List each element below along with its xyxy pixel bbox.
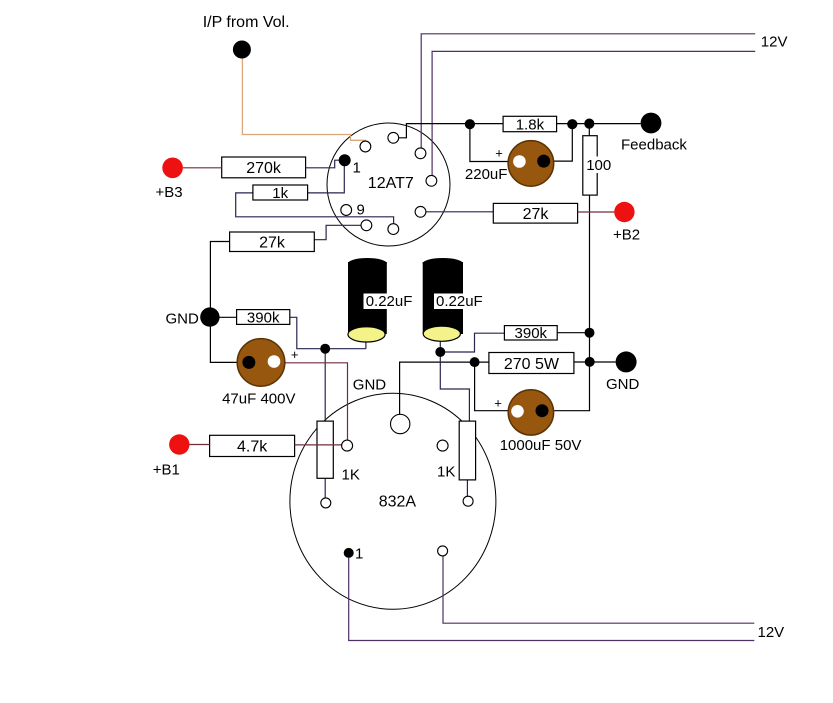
svg-text:+: + xyxy=(291,347,299,362)
svg-text:I/P from Vol.: I/P from Vol. xyxy=(203,14,290,31)
wire: red 4.7k to 832A grid pin xyxy=(295,444,342,446)
svg-text:27k: 27k xyxy=(259,235,286,252)
wire: navy junction down to left 1K grid resistor xyxy=(324,353,326,421)
terminal GND left xyxy=(166,307,220,327)
resistor R 1k xyxy=(253,185,308,202)
resistor R 390k left xyxy=(237,309,290,326)
wire: black GND dot to 390k left resistor xyxy=(220,316,237,318)
pin 832A plate (big top) xyxy=(391,414,410,433)
wire: black 100 resistor bottom down to 1000uF - terminal xyxy=(548,195,589,411)
svg-text:390k: 390k xyxy=(247,309,280,326)
svg-text:27k: 27k xyxy=(523,206,550,223)
junction node cathode bus left of 270 5W xyxy=(470,357,480,367)
svg-text:1k: 1k xyxy=(272,185,288,202)
pin 3 12AT7 (top) xyxy=(388,132,399,143)
svg-text:+B2: +B2 xyxy=(613,227,640,244)
svg-text:+B1: +B1 xyxy=(153,462,180,479)
terminal +B1 xyxy=(153,434,190,478)
capacitor C 220uF electrolytic xyxy=(465,141,554,187)
svg-text:12V: 12V xyxy=(758,624,785,641)
svg-text:12V: 12V xyxy=(761,34,788,51)
label 0.22uF left xyxy=(364,293,415,310)
svg-text:1.8k: 1.8k xyxy=(516,116,545,133)
wire: navy left 0.22uF bottom to junction node xyxy=(330,334,366,349)
svg-text:0.22uF: 0.22uF xyxy=(366,293,413,310)
resistor R 27k left xyxy=(230,232,315,252)
wire: black 390k right to vertical bus node xyxy=(557,332,589,334)
wire: black bus 1.8k right to Feedback dot xyxy=(557,123,641,125)
pin 7 12AT7 (bottom-left) xyxy=(361,220,372,231)
terminal +B3 xyxy=(156,158,183,202)
junction node right of 1.8k xyxy=(567,119,577,129)
wire: navy 390k-left right side down to cathode node of left 0.22uF xyxy=(290,317,321,348)
svg-text:Feedback: Feedback xyxy=(621,137,687,154)
pin 832A cathode right xyxy=(463,496,473,506)
resistor R 1.8k xyxy=(503,116,556,133)
wire: navy pin 6 to 27k (to +B2) xyxy=(426,211,493,213)
wire: navy junction right then up to 390k right resistor xyxy=(445,333,505,352)
junction node 390k right xyxy=(585,328,595,338)
resistor R 1K left (vertical) xyxy=(317,421,360,483)
pin 1 12AT7 (filled) xyxy=(339,154,361,176)
wire: black plate pin 3 to top bus toward 1.8k xyxy=(399,124,503,138)
pin 832A heater (bottom-right) xyxy=(438,546,448,556)
svg-text:832A: 832A xyxy=(379,494,417,511)
capacitor C 0.22uF left (film, cylinder) xyxy=(348,258,387,342)
junction node right of 270 5W xyxy=(585,357,595,367)
svg-text:+B3: +B3 xyxy=(156,184,183,201)
svg-text:47uF 400V: 47uF 400V xyxy=(222,391,295,408)
pin 6 12AT7 (bottom-right) xyxy=(415,206,426,217)
svg-text:12AT7: 12AT7 xyxy=(368,175,414,192)
svg-text:220uF: 220uF xyxy=(465,166,508,183)
svg-text:+: + xyxy=(495,146,503,161)
wire: black GND dot down to 47uF - terminal xyxy=(210,327,242,363)
pin 832A cathode left xyxy=(321,498,331,508)
label 0.22uF right xyxy=(434,293,485,310)
svg-text:270k: 270k xyxy=(246,160,282,177)
terminal I/P from Vol. xyxy=(203,14,290,59)
resistor R 4.7k xyxy=(210,435,295,456)
tube V2 832A envelope xyxy=(290,393,496,609)
wire: navy 270k to pin 1 xyxy=(306,160,339,168)
terminal +B2 xyxy=(613,202,640,244)
wire: black 270 5W right to GND dot xyxy=(574,361,616,363)
wire: navy left 1K bottom to 832A pin xyxy=(324,478,326,498)
pin 1 832A heater (filled) xyxy=(344,546,364,563)
wire: purple heater 832A pin1 down to lower 12V line xyxy=(349,558,755,641)
svg-text:GND: GND xyxy=(166,311,200,328)
svg-text:1: 1 xyxy=(353,160,361,177)
junction node left of 1.8k xyxy=(465,119,475,129)
svg-text:1K: 1K xyxy=(342,467,360,484)
capacitor C 0.22uF right (film, cylinder) xyxy=(423,258,463,341)
tube V1 12AT7 envelope xyxy=(327,123,450,246)
terminal GND right xyxy=(606,351,640,393)
pin 2 12AT7 grid (top-left) xyxy=(360,141,371,152)
wire: navy 1k right side up to pin1 node xyxy=(308,166,345,193)
pin 8 12AT7 (bottom-mid) xyxy=(388,224,399,235)
capacitor C 1000uF 50V electrolytic xyxy=(494,390,581,454)
resistor R 1K right (vertical) xyxy=(437,421,476,480)
wire: orange input wire from I/P dot to 12AT7 grid pin xyxy=(242,58,365,141)
wire: purple heater 12V top line B to pin 5 xyxy=(432,51,755,175)
wire: black 27k left to GND rail down xyxy=(210,242,229,308)
wire: navy 1k left side down and right to pin 8 xyxy=(236,193,394,224)
wire: red +B1 to 4.7k xyxy=(189,444,209,446)
svg-text:1: 1 xyxy=(355,546,363,563)
wire: red +B3 to 270k xyxy=(183,167,222,169)
capacitor C 47uF 400V electrolytic xyxy=(222,339,298,408)
wire: red 47uF + terminal to 832A grid pin xyxy=(280,363,347,440)
wire: purple heater 832A bottom pin down to upper 12V line xyxy=(443,556,754,623)
resistor R 390k right xyxy=(504,325,557,342)
resistor R 270k xyxy=(222,157,306,178)
wire: navy right 0.22uF bottom to junction xyxy=(439,334,441,348)
wire: red 27k to +B2 xyxy=(578,211,615,213)
svg-text:390k: 390k xyxy=(515,325,548,342)
svg-text:+: + xyxy=(494,395,502,410)
wire: navy junction down then right to right 1K top xyxy=(440,357,469,421)
wire: black cathode node down to 1000uF + terminal xyxy=(475,362,512,411)
svg-text:GND: GND xyxy=(606,376,640,393)
wire: black node to 100 resistor top xyxy=(588,124,590,136)
resistor R 270 5W xyxy=(489,353,574,374)
resistor R 27k upper (anode to +B2) xyxy=(493,203,577,223)
svg-text:0.22uF: 0.22uF xyxy=(436,293,483,310)
wire: black 1.8k-left node down to 220uF + terminal xyxy=(470,124,513,161)
wire: black 832A plate pin up and right along cathode bus to 270 5W xyxy=(400,362,489,414)
svg-text:4.7k: 4.7k xyxy=(237,439,268,456)
svg-text:GND: GND xyxy=(353,377,387,394)
junction node below left 0.22uF xyxy=(320,344,330,354)
resistor R 100 (vertical) xyxy=(583,136,612,195)
wire: purple heater 12V top line A to pin 4 xyxy=(421,34,755,148)
pin 832A grid left xyxy=(342,440,353,451)
pin 5 12AT7 heater (right-mid) xyxy=(426,175,437,186)
wire: navy right 1K bottom to 832A pin xyxy=(466,480,468,496)
svg-text:100: 100 xyxy=(586,157,611,174)
svg-text:270 5W: 270 5W xyxy=(504,356,560,373)
pin 9 12AT7 xyxy=(341,202,365,219)
pin 4 12AT7 heater (right-top) xyxy=(415,148,426,159)
junction node at 100 resistor top xyxy=(584,119,594,129)
wire: navy 27k left resistor to pin 7 xyxy=(314,225,361,239)
svg-text:1K: 1K xyxy=(437,464,455,481)
junction node below right 0.22uF xyxy=(435,347,445,357)
svg-text:9: 9 xyxy=(357,202,365,219)
terminal Feedback xyxy=(621,113,687,154)
pin 832A grid right xyxy=(437,440,448,451)
wire: black 220uF - terminal up to bus node xyxy=(550,124,572,161)
svg-text:1000uF 50V: 1000uF 50V xyxy=(500,437,582,454)
